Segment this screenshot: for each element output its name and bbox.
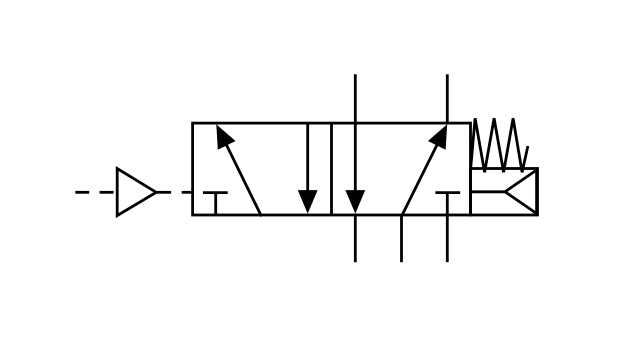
wire pilot dashed line to valve body	[156, 191, 192, 194]
pilot actuator triangle (pneumatic pilot)	[117, 169, 156, 216]
pilot-air return box	[471, 169, 538, 216]
valve body outer box	[193, 123, 471, 215]
wire pilot dashed line left segment	[75, 191, 113, 194]
wire port line top-right	[446, 74, 449, 124]
flow arrow up-right (right position)	[402, 124, 448, 216]
wire port line bottom-right	[446, 215, 449, 262]
spring return zigzag	[471, 118, 528, 172]
wire port line top-left with down flow arrow (right position)	[345, 74, 365, 262]
flow arrow down (left position)	[298, 123, 318, 214]
pilot-air return triangle	[505, 170, 537, 214]
flow arrow up-left (left position)	[216, 124, 261, 216]
blocked port T (left position)	[203, 193, 228, 215]
position separator line	[330, 123, 333, 215]
wire pilot-air mid line	[471, 190, 506, 193]
blocked port T (right position)	[435, 193, 460, 215]
wire port line bottom-middle	[400, 215, 403, 262]
